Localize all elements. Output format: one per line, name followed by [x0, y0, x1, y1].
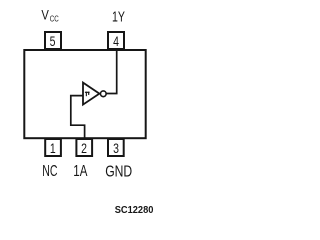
svg-text:NC: NC [42, 162, 57, 180]
inverter IEC '1' mark [85, 92, 90, 97]
wire: bubble to pin 4 [106, 50, 116, 94]
svg-text:4: 4 [113, 33, 119, 49]
svg-text:SC12280: SC12280 [115, 205, 154, 216]
svg-text:3: 3 [113, 140, 119, 156]
pin 2 box [76, 139, 92, 156]
inverter U1 triangle [83, 83, 99, 105]
pin 5 box [45, 32, 61, 49]
wire: input loop to pin 2 [71, 96, 85, 140]
pin 3 box [108, 139, 124, 156]
pin 1 box [45, 139, 61, 156]
svg-text:1: 1 [50, 140, 56, 156]
svg-text:GND: GND [105, 163, 132, 181]
inverter output bubble [100, 91, 106, 97]
pin 4 box [108, 32, 124, 49]
package outline U1 [24, 50, 145, 138]
svg-text:1Y: 1Y [112, 9, 125, 25]
svg-text:5: 5 [50, 33, 56, 49]
svg-text:V: V [41, 7, 49, 22]
svg-text:2: 2 [81, 140, 87, 156]
label VCC [41, 7, 58, 23]
svg-text:1A: 1A [73, 161, 88, 179]
svg-text:CC: CC [50, 15, 59, 24]
